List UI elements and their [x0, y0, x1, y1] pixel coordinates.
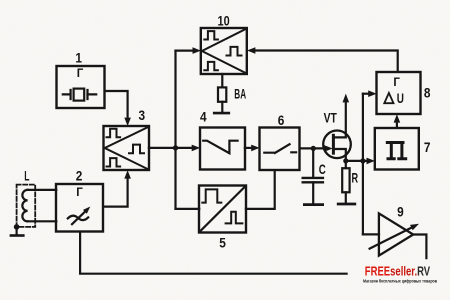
svg-text:6: 6 [278, 112, 285, 128]
wire block5 to block6 bottom [246, 170, 275, 209]
wire right trunk to block 9 input [363, 233, 379, 235]
transistor VT circle [323, 131, 351, 159]
watermark FREEseller.RV [365, 265, 431, 279]
wire block3 output to trunk [149, 147, 176, 149]
block 6 (electronic switch) box [260, 128, 300, 171]
trunk vertical wire [174, 51, 176, 209]
ground lead [16, 227, 18, 235]
ground bar [11, 234, 23, 237]
right trunk vertical wire [362, 94, 364, 235]
block 5 narrow pulse glyph [226, 212, 243, 224]
loudspeaker BA lower lead [221, 102, 223, 113]
block 3 pulse glyph mid-right [129, 145, 144, 154]
svg-text:FREEseller.RV: FREEseller.RV [365, 265, 431, 279]
wire block7 to block8 with arrow [394, 114, 401, 128]
block 10 diagonals [202, 29, 246, 73]
switch symbol in block 6 [264, 144, 296, 153]
capacitor C upper lead [312, 148, 314, 178]
wire trunk to block 4 with arrow [176, 145, 201, 152]
wire block8 top to block10 right with arrow [247, 47, 398, 72]
block 10 pulse glyph bottom-left [204, 62, 218, 70]
svg-text:5: 5 [219, 235, 226, 251]
resistor R upper lead [345, 161, 347, 168]
svg-text:9: 9 [397, 204, 404, 220]
svg-text:7: 7 [424, 139, 431, 155]
block 3 diagonals [105, 127, 149, 169]
block 8 (comparator) box [377, 72, 421, 114]
block 7 (square wave reference) box [375, 128, 419, 170]
quartz crystal symbol in block 1 [63, 89, 96, 101]
svg-text:L: L [24, 168, 29, 184]
loudspeaker BA body [218, 87, 226, 101]
block 10 pulse glyph top-left [204, 31, 218, 39]
svg-text:R: R [352, 170, 359, 186]
transistor VT source lead [333, 149, 345, 161]
svg-text:4: 4 [200, 108, 207, 124]
block 1 (quartz oscillator) box [57, 66, 105, 108]
wire trunk to block 5 [176, 208, 200, 210]
svg-text:Г: Г [77, 68, 84, 80]
wire block2 to block3 with arrow [103, 170, 130, 206]
block 9 (variable amplifier) triangle [379, 213, 413, 255]
block 10 pulse glyph mid-right [227, 47, 242, 56]
wire block6 to VT gate [300, 147, 326, 149]
svg-text:8: 8 [424, 84, 431, 100]
svg-text:U: U [397, 90, 404, 106]
square pulse glyph in block 7 [387, 143, 405, 159]
block 5 (pulse shaper) box [199, 186, 246, 233]
resistor R body [342, 168, 349, 192]
inductor L dashed screen box [17, 185, 36, 227]
node junction dot on trunk [173, 145, 178, 150]
block 3 (mixer) box [104, 126, 150, 170]
svg-text:VT: VT [324, 109, 338, 125]
node junction dot at source [343, 158, 348, 163]
inductor L coil [22, 190, 27, 222]
variable symbol in block 2 [68, 207, 91, 225]
block 3 pulse glyph top-left [107, 129, 121, 137]
wire block4 to block6 with arrow [245, 145, 260, 152]
block 10 (gate mixer) box [201, 28, 247, 74]
transistor VT channel bar [332, 135, 335, 153]
svg-text:BA: BA [234, 86, 246, 102]
loudspeaker BA lead from block 10 [221, 74, 223, 87]
svg-text:2: 2 [76, 167, 83, 183]
svg-text:Г: Г [76, 187, 83, 199]
block 3 pulse glyph bottom-left [107, 158, 121, 166]
feedback wire block2 bottom [80, 232, 347, 274]
svg-text:10: 10 [218, 13, 230, 29]
delta symbol in block 8 [384, 93, 393, 103]
wire right trunk to block 8 with arrow [363, 90, 377, 97]
svg-text:1: 1 [75, 49, 82, 65]
resistor R lower lead [345, 192, 347, 203]
common bar under BA [214, 112, 229, 115]
block 4 (sawtooth generator) box [200, 128, 245, 170]
svg-text:C: C [319, 161, 326, 177]
variable arrow through block 9 [370, 224, 419, 249]
block 5 wide pulse glyph [202, 189, 221, 202]
transistor VT gate arrowhead [324, 145, 332, 151]
svg-text:3: 3 [139, 107, 146, 123]
wire coil bottom to block 2 [28, 220, 57, 222]
svg-text:Магазин бесплатных цифровых то: Магазин бесплатных цифровых товаров [363, 278, 437, 284]
common bar under R [338, 203, 355, 206]
capacitor C lower lead [312, 182, 314, 204]
transistor VT drain lead with supply arrow [333, 94, 349, 138]
node junction dot at capacitor [311, 146, 316, 151]
wire trunk to block 10 with arrow [176, 47, 201, 54]
node junction dot on right trunk [360, 158, 365, 163]
svg-text:Г: Г [393, 77, 400, 89]
sawtooth waveform in block 4 [203, 141, 237, 154]
junction screen/ground [14, 224, 20, 230]
block 2 (tunable generator) box [56, 184, 103, 232]
capacitor C plates [303, 178, 323, 182]
wire block9 output [413, 235, 426, 259]
common bar under C [304, 203, 322, 206]
wire block1 to block3 with arrow [105, 91, 131, 126]
block 5 diagonal [200, 187, 245, 231]
wire source node to block 7 with arrow [346, 158, 375, 165]
wire coil top to block 2 [28, 189, 57, 191]
